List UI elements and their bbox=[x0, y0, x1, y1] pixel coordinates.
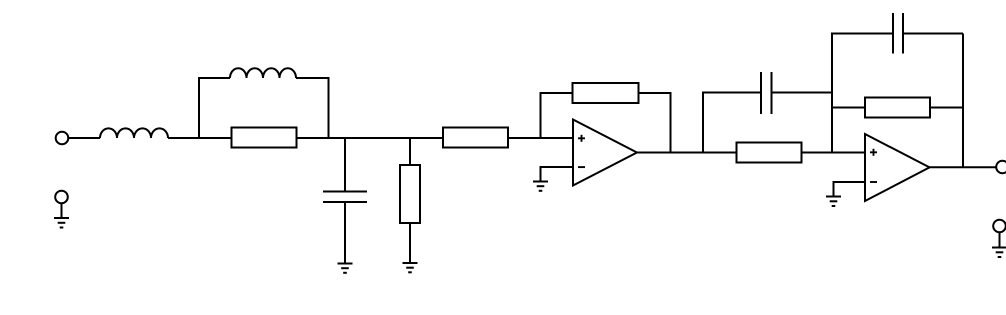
input terminal P1 bbox=[56, 132, 69, 145]
wire bbox=[637, 152, 737, 154]
wire bbox=[930, 166, 997, 168]
resistor R3 bbox=[443, 128, 508, 148]
wire bbox=[832, 34, 893, 153]
wire bbox=[69, 137, 101, 139]
wire bbox=[297, 137, 444, 139]
resistor R6 bbox=[865, 98, 930, 118]
wire bbox=[832, 107, 865, 109]
wire bbox=[344, 138, 346, 192]
wire bbox=[930, 107, 963, 109]
ground bbox=[403, 263, 418, 272]
output terminal P2 bbox=[996, 161, 1006, 174]
wire bbox=[199, 78, 230, 138]
ground terminal P1- bbox=[55, 191, 68, 218]
resistor R2 bbox=[400, 165, 420, 223]
ground bbox=[338, 264, 353, 273]
wire bbox=[962, 34, 964, 168]
wire bbox=[903, 33, 963, 35]
ground bbox=[533, 182, 548, 191]
wire bbox=[772, 92, 833, 94]
wire bbox=[639, 93, 671, 153]
inductor L2 bbox=[230, 68, 296, 78]
capacitor C2 bbox=[761, 72, 772, 114]
ground bbox=[54, 218, 69, 228]
wire bbox=[344, 202, 346, 264]
wire bbox=[802, 152, 866, 154]
ground terminal P2- bbox=[993, 220, 1006, 248]
wire bbox=[703, 93, 761, 153]
wire bbox=[168, 137, 232, 139]
wire bbox=[409, 138, 411, 165]
wire bbox=[409, 223, 411, 263]
plus sign U2 bbox=[870, 149, 877, 156]
resistor R5 bbox=[737, 143, 802, 163]
ground bbox=[826, 197, 841, 207]
wire bbox=[834, 182, 866, 197]
wire bbox=[508, 137, 573, 139]
capacitor C3 bbox=[893, 13, 903, 54]
inductor L1 bbox=[100, 128, 168, 138]
minus sign U2 bbox=[870, 181, 877, 183]
resistor R4 bbox=[573, 83, 639, 103]
wire bbox=[541, 167, 574, 182]
op-amp U1 bbox=[573, 120, 637, 186]
op-amp U2 bbox=[865, 134, 930, 201]
resistor R1 bbox=[232, 128, 297, 148]
plus sign U1 bbox=[578, 135, 585, 142]
wire bbox=[296, 78, 329, 138]
ground bbox=[992, 248, 1006, 258]
wire bbox=[541, 93, 573, 138]
minus sign U1 bbox=[578, 166, 585, 168]
capacitor C1 bbox=[323, 192, 367, 203]
